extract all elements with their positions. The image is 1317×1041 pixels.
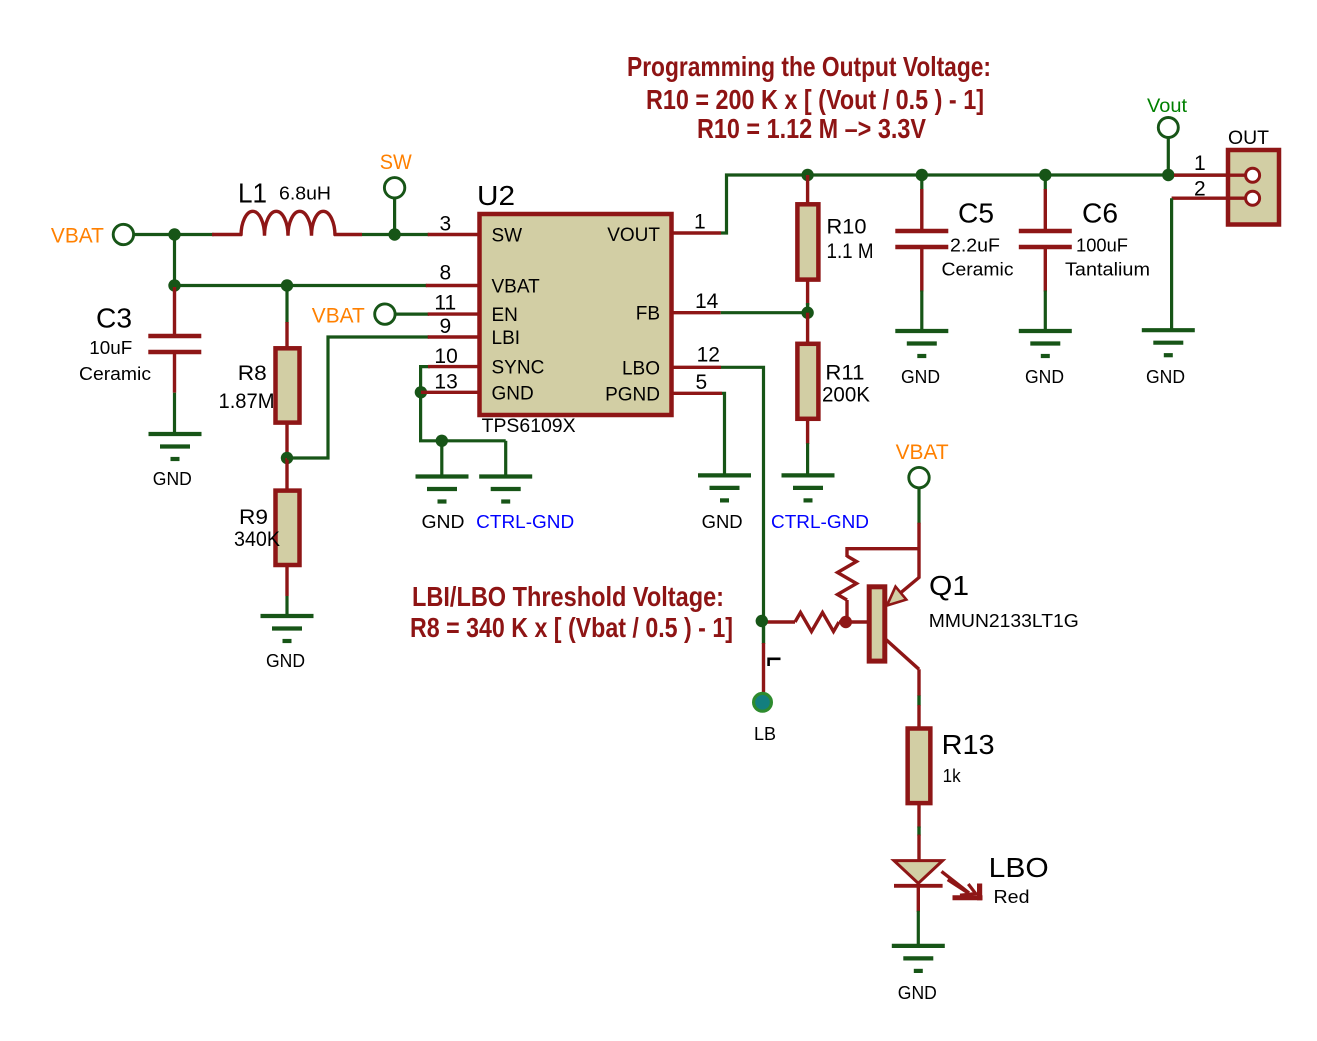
svg-text:GND: GND — [1146, 367, 1185, 387]
svg-text:R9: R9 — [239, 506, 268, 529]
svg-text:11: 11 — [434, 292, 456, 315]
ground GND under LED — [892, 946, 945, 1003]
svg-text:2.2uF: 2.2uF — [950, 236, 1000, 256]
pin 13 stub — [421, 371, 478, 394]
node junction R8 top — [281, 279, 293, 291]
wire VOUT to bus — [721, 175, 1249, 233]
svg-text:FB: FB — [636, 304, 660, 325]
svg-text:1: 1 — [1194, 152, 1206, 175]
value TPS6109X — [482, 416, 576, 437]
svg-text:VBAT: VBAT — [896, 441, 949, 464]
label R11 — [825, 362, 864, 385]
svg-text:340K: 340K — [234, 528, 280, 551]
ground GND under PGND — [698, 475, 751, 532]
pin 1 stub — [673, 211, 721, 234]
wire VBAT to L1 — [134, 233, 215, 236]
svg-text:Tantalium: Tantalium — [1065, 260, 1150, 280]
LED LBO (red) diode — [894, 861, 943, 912]
ground GND under C3 — [149, 434, 202, 489]
svg-text:Red: Red — [994, 887, 1030, 907]
svg-text:1k: 1k — [943, 766, 962, 786]
wire SW drop — [393, 197, 396, 235]
svg-text:200K: 200K — [822, 384, 870, 407]
value Ceramic — [79, 364, 151, 384]
svg-text:OUT: OUT — [1228, 128, 1269, 149]
wire PGND to ground — [722, 393, 725, 476]
svg-text:6.8uH: 6.8uH — [279, 184, 331, 204]
svg-text:100uF: 100uF — [1076, 236, 1128, 256]
wire L1 to pin 3 — [362, 233, 429, 236]
node junction bus C5 — [916, 169, 928, 181]
pin 1 label LB connector — [769, 659, 781, 666]
svg-text:L1: L1 — [238, 178, 267, 209]
svg-text:GND: GND — [492, 383, 534, 404]
pin 10 stub — [428, 345, 478, 368]
svg-text:R13: R13 — [942, 729, 995, 760]
power terminal VBAT (input) — [51, 224, 134, 247]
pin 1 wire OUT — [1174, 152, 1246, 175]
node LB terminal — [754, 693, 776, 744]
svg-text:GND: GND — [898, 983, 937, 1003]
node junction bus C6 — [1039, 169, 1051, 181]
value 10uF — [89, 338, 132, 358]
label C5 — [958, 198, 994, 229]
pin 11 stub — [428, 292, 478, 315]
svg-text:LBO: LBO — [622, 358, 660, 379]
svg-text:10: 10 — [434, 345, 457, 368]
resistor R9 340K — [276, 458, 300, 596]
resistor R10 1.1M — [797, 175, 818, 313]
wire C5 to ground — [920, 291, 923, 333]
svg-text:R10: R10 — [827, 216, 867, 239]
wire to GND — [440, 441, 443, 477]
pin 5 stub — [673, 371, 722, 394]
svg-text:GND: GND — [422, 512, 465, 532]
text formula R10 = 200 K x [ (Vout / 0.5 ) - 1] — [646, 84, 984, 115]
svg-text:GND: GND — [266, 651, 305, 671]
wire R11 to ground — [806, 443, 809, 476]
text heading Programming the Output Voltage — [627, 51, 991, 82]
node junction Vout — [1162, 169, 1174, 181]
value 2.2uF — [950, 236, 1000, 256]
wire to CTRL-GND — [504, 441, 507, 477]
pin label VOUT — [607, 225, 660, 246]
svg-text:LB: LB — [754, 724, 776, 744]
svg-text:CTRL-GND: CTRL-GND — [476, 512, 574, 532]
pin label SW — [492, 226, 523, 247]
svg-text:SW: SW — [380, 151, 412, 174]
terminal Vout — [1147, 96, 1188, 138]
connector OUT pin 1 circle — [1246, 168, 1260, 182]
pin label SYNC — [492, 358, 545, 379]
resistor R13 1k — [908, 729, 931, 804]
wire R8 top lead — [285, 286, 288, 324]
svg-text:GND: GND — [901, 367, 940, 387]
wire R13 to LED — [917, 803, 920, 860]
pin label GND — [492, 383, 534, 404]
inductor L1 6.8uH — [212, 211, 362, 236]
svg-text:8: 8 — [440, 262, 452, 285]
label R9 — [239, 506, 268, 529]
svg-text:R10 = 1.12 M –> 3.3V: R10 = 1.12 M –> 3.3V — [697, 113, 926, 144]
value Ceramic C5 — [942, 260, 1014, 280]
terminal VBAT (Q1) — [896, 441, 949, 488]
wire VBAT Q1 down — [917, 487, 920, 524]
pin 9 stub — [428, 315, 478, 338]
wire emitter lead — [917, 523, 920, 579]
wire EN — [395, 313, 430, 316]
svg-text:EN: EN — [492, 305, 518, 326]
ground CTRL-GND under R11 — [771, 475, 869, 532]
node junction ctrl-gnd split — [436, 435, 448, 447]
node junction VBAT rail — [168, 228, 180, 240]
text formula R10 = 1.12 M -> 3.3V — [697, 113, 926, 144]
label C6 — [1082, 198, 1118, 229]
svg-text:Programming the Output Voltage: Programming the Output Voltage: — [627, 51, 991, 82]
svg-text:U2: U2 — [477, 180, 515, 211]
wire pullup top — [847, 547, 919, 557]
svg-text:R10 = 200 K x [ (Vout / 0.5 ): R10 = 200 K x [ (Vout / 0.5 ) - 1] — [646, 84, 984, 115]
wire LBO down — [721, 367, 764, 621]
wire LBI tap — [287, 337, 429, 458]
resistor R11 200K — [797, 313, 818, 444]
op-amp U2 TPS6109X body — [480, 214, 672, 415]
pin label PGND — [605, 384, 660, 405]
transistor Q1 base bar — [869, 587, 885, 661]
text formula R8 = 340 K x [ (Vbat / 0.5 ) - 1] — [410, 612, 733, 643]
value 100uF — [1076, 236, 1128, 256]
pin 8 stub — [426, 262, 478, 286]
svg-text:Q1: Q1 — [929, 570, 969, 601]
wire C3 to ground — [173, 393, 176, 434]
svg-text:1.1 M: 1.1 M — [827, 240, 874, 263]
wire collector to R13 — [917, 669, 920, 728]
pin label VBAT — [492, 277, 541, 298]
pin label EN — [492, 305, 518, 326]
wire C6 to ground — [1044, 291, 1047, 333]
svg-text:Ceramic: Ceramic — [79, 364, 151, 384]
connector OUT body — [1228, 128, 1279, 225]
svg-text:1.87M: 1.87M — [219, 390, 275, 413]
capacitor C5 2.2uF — [895, 189, 948, 292]
svg-text:C6: C6 — [1082, 198, 1118, 229]
node junction pin 13 — [415, 386, 427, 398]
text heading LBI/LBO Threshold Voltage — [412, 581, 724, 612]
svg-text:LBI: LBI — [492, 328, 521, 349]
label R10 — [827, 216, 867, 239]
svg-text:LBO: LBO — [989, 852, 1049, 883]
svg-text:MMUN2133LT1G: MMUN2133LT1G — [929, 611, 1079, 631]
node junction bus R10 — [801, 169, 813, 181]
svg-text:C5: C5 — [958, 198, 994, 229]
svg-text:VBAT: VBAT — [312, 305, 365, 328]
label C3 — [96, 303, 132, 334]
capacitor C3 10uF — [148, 287, 201, 393]
svg-text:R8 = 340 K x [ (Vbat / 0.5 ) -: R8 = 340 K x [ (Vbat / 0.5 ) - 1] — [410, 612, 733, 643]
LED arrow 2 — [948, 880, 976, 896]
LED arrow 1 — [942, 871, 983, 900]
svg-text:14: 14 — [695, 290, 719, 313]
svg-text:5: 5 — [696, 371, 708, 394]
capacitor C6 100uF — [1019, 189, 1072, 292]
svg-text:13: 13 — [434, 371, 457, 394]
pin 12 stub — [673, 344, 721, 368]
value 6.8uH — [279, 184, 331, 204]
pin label LBI — [492, 328, 521, 349]
ground GND under C5 — [895, 331, 948, 387]
svg-text:SYNC: SYNC — [492, 358, 545, 379]
node junction R8/R9/LBI — [281, 452, 293, 464]
ground GND under R9 — [261, 616, 314, 671]
value 200K — [822, 384, 870, 407]
svg-text:GND: GND — [153, 469, 192, 489]
node junction C3 top — [168, 279, 180, 291]
pin 14 stub — [673, 290, 721, 313]
svg-text:VBAT: VBAT — [492, 277, 541, 298]
wire C5 top — [920, 175, 923, 190]
wire VBAT rail to pin 8 — [175, 284, 428, 287]
svg-text:SW: SW — [492, 226, 523, 247]
connector OUT pin 2 circle — [1246, 191, 1260, 205]
svg-text:9: 9 — [440, 315, 452, 338]
terminal SW — [380, 151, 412, 198]
svg-text:1: 1 — [694, 211, 706, 234]
resistor Q1 internal pull-up (zigzag) — [838, 556, 857, 622]
svg-text:PGND: PGND — [605, 384, 660, 405]
wire FB to divider — [721, 311, 808, 314]
value 1.1 M — [827, 240, 874, 263]
svg-text:Vout: Vout — [1147, 96, 1188, 117]
wire C6 top — [1044, 175, 1047, 190]
wire VBAT rail drop — [173, 235, 176, 286]
value MMUN2133LT1G — [929, 611, 1079, 631]
terminal VBAT (EN) — [312, 304, 395, 328]
value 1.87M — [219, 390, 275, 413]
svg-text:VOUT: VOUT — [607, 225, 660, 246]
svg-text:TPS6109X: TPS6109X — [482, 416, 576, 437]
node junction base — [840, 616, 869, 628]
pin label FB — [636, 304, 660, 325]
wire SYNC down — [421, 367, 506, 441]
svg-text:Ceramic: Ceramic — [942, 260, 1014, 280]
label R8 — [238, 362, 267, 385]
label LBO — [989, 852, 1049, 883]
node junction SW — [388, 228, 400, 240]
svg-text:LBI/LBO Threshold Voltage:: LBI/LBO Threshold Voltage: — [412, 581, 724, 612]
label U2 — [477, 180, 515, 211]
value 1k — [943, 766, 962, 786]
label R13 — [942, 729, 995, 760]
svg-text:C3: C3 — [96, 303, 132, 334]
ground GND under OUT — [1142, 330, 1195, 387]
value Tantalium — [1065, 260, 1150, 280]
value Red — [994, 887, 1030, 907]
label L1 — [238, 178, 267, 209]
wire R9 to ground — [285, 596, 288, 616]
node junction LB — [756, 615, 768, 627]
wire LB lead — [762, 622, 765, 693]
svg-text:VBAT: VBAT — [51, 224, 104, 247]
node junction FB — [801, 307, 813, 319]
svg-text:10uF: 10uF — [89, 338, 132, 358]
ground GND under C6 — [1019, 331, 1072, 387]
wire OUT pin 2 to ground — [1170, 198, 1173, 331]
svg-text:GND: GND — [1025, 367, 1064, 387]
wire Vout drop — [1167, 137, 1170, 175]
pin label LBO — [622, 358, 660, 379]
svg-text:12: 12 — [697, 344, 720, 367]
transistor Q1 emitter — [885, 578, 919, 607]
transistor Q1 collector — [885, 639, 919, 670]
svg-text:R8: R8 — [238, 362, 267, 385]
resistor Q1 internal base series (zigzag) — [764, 613, 847, 632]
wire LED to ground — [917, 911, 920, 947]
ground GND under U2 — [416, 477, 469, 533]
svg-text:2: 2 — [1194, 178, 1206, 201]
label Q1 — [929, 570, 969, 601]
ground CTRL-GND under U2 — [476, 477, 574, 533]
svg-text:CTRL-GND: CTRL-GND — [771, 512, 869, 532]
svg-text:3: 3 — [440, 213, 452, 236]
pin 3 stub — [428, 213, 478, 236]
resistor R8 1.87M — [276, 322, 300, 458]
svg-text:GND: GND — [702, 512, 743, 532]
pin 2 wire OUT — [1172, 178, 1246, 201]
svg-text:R11: R11 — [825, 362, 864, 385]
value 340K — [234, 528, 280, 551]
